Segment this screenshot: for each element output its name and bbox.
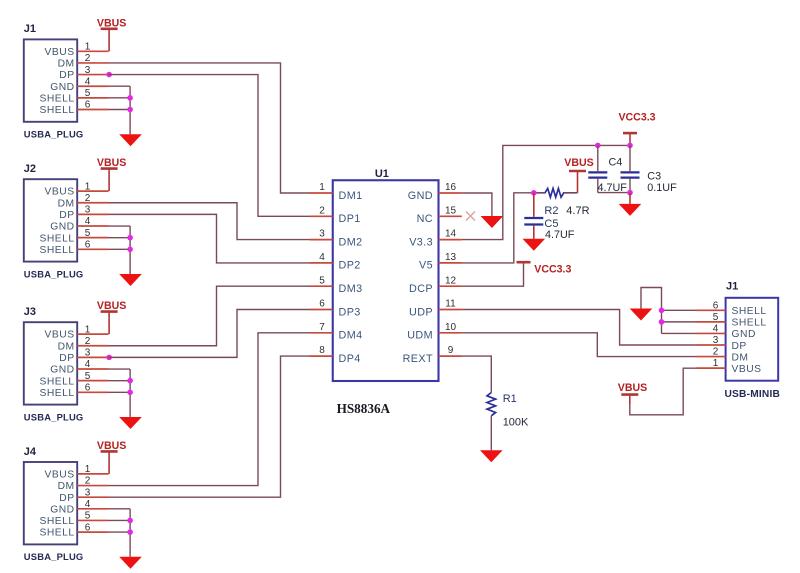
ground at J1 USB-MINIB (630, 309, 653, 321)
junction J3 DP (106, 355, 112, 361)
junction top rail at C3 (627, 143, 633, 149)
svg-text:DM3: DM3 (339, 283, 363, 295)
svg-text:9: 9 (448, 345, 454, 356)
svg-text:100K: 100K (503, 417, 529, 429)
svg-text:DCP: DCP (409, 283, 433, 295)
ground at U1 pin16 (481, 216, 504, 228)
svg-text:DM: DM (732, 352, 749, 363)
U1 left pin numbers (319, 182, 325, 356)
svg-text:10: 10 (445, 322, 457, 333)
ground below C3 (619, 204, 642, 216)
wire U1 UDP pin11 to J1 DP (462, 310, 696, 346)
svg-text:2: 2 (319, 205, 325, 216)
connector J3 USBA_PLUG box (24, 322, 77, 404)
junction J2 SHELL pin6 (127, 247, 133, 253)
connector J2 pin leads (77, 191, 108, 249)
svg-text:C5: C5 (544, 218, 558, 230)
svg-text:VCC3.3: VCC3.3 (534, 263, 571, 275)
power symbol VBUS at R2 (564, 157, 593, 193)
svg-text:11: 11 (445, 299, 456, 310)
svg-text:DM: DM (58, 341, 75, 352)
svg-text:VBUS: VBUS (564, 157, 593, 169)
ground below C5 (523, 239, 546, 251)
ground below J1 (119, 134, 142, 146)
svg-text:U1: U1 (375, 168, 389, 180)
svg-text:USBA_PLUG: USBA_PLUG (24, 129, 84, 140)
wire U1 REXT pin9 to R1 (462, 356, 492, 392)
svg-text:R2: R2 (544, 205, 558, 217)
junction J4 SHELL pin6 (127, 529, 133, 535)
ground below J2 (119, 274, 142, 286)
svg-text:7: 7 (319, 322, 325, 333)
svg-text:VCC3.3: VCC3.3 (618, 112, 655, 124)
svg-text:6: 6 (319, 299, 325, 310)
power symbol VBUS at J2 (97, 157, 126, 191)
junction J3 SHELL pin6 (127, 390, 133, 396)
wire J1 DP to U1 DP1 (109, 75, 311, 217)
wire J1 VBUS pin1 to VBUS symbol (630, 368, 696, 415)
svg-text:NC: NC (417, 213, 433, 225)
svg-text:SHELL: SHELL (39, 93, 74, 104)
no-connect X on U1 pin15 NC (466, 212, 475, 221)
connector J3 pin numbers 1-6 (85, 324, 91, 393)
svg-text:GND: GND (408, 190, 433, 202)
wire J4 GND-SHELL tie (109, 509, 131, 557)
svg-text:REXT: REXT (403, 353, 433, 365)
svg-text:DM1: DM1 (339, 190, 363, 202)
power symbol VBUS at J1 USB-MINIB (618, 382, 647, 404)
svg-text:DP: DP (59, 353, 74, 364)
svg-text:J2: J2 (24, 163, 36, 175)
svg-text:VBUS: VBUS (45, 330, 75, 341)
connector J1 (right) pin leads (696, 310, 726, 368)
connector J4 pin numbers 1-6 (85, 464, 91, 533)
svg-text:GND: GND (50, 504, 74, 515)
svg-text:16: 16 (445, 182, 457, 193)
wire J3 DM to U1 DM3 (109, 286, 311, 346)
connector J4 pin names (39, 470, 74, 539)
wire U1 GND pin16 to ground (462, 193, 492, 216)
junction top rail at C4 (595, 143, 601, 149)
svg-text:DM: DM (58, 59, 75, 70)
svg-text:DP: DP (732, 341, 747, 352)
connector J4 pin leads (77, 474, 108, 532)
wire J2 DM to U1 DM2 (109, 203, 311, 240)
svg-text:VBUS: VBUS (45, 470, 75, 481)
resistor R2 (534, 188, 590, 217)
svg-text:C4: C4 (609, 156, 623, 168)
svg-text:DP4: DP4 (339, 353, 361, 365)
svg-text:GND: GND (50, 222, 74, 233)
junction J2 SHELL pin5 (127, 235, 133, 241)
svg-text:1: 1 (319, 182, 325, 193)
svg-text:USBA_PLUG: USBA_PLUG (24, 268, 84, 279)
svg-text:GND: GND (50, 365, 74, 376)
svg-text:DP2: DP2 (339, 260, 361, 272)
power symbol VBUS at J3 (97, 300, 126, 334)
svg-text:DP1: DP1 (339, 213, 361, 225)
connector J1 pin leads (77, 51, 108, 109)
connector J1 USB-MINIB box (726, 298, 779, 381)
svg-text:8: 8 (319, 345, 325, 356)
svg-text:VBUS: VBUS (45, 187, 75, 198)
svg-text:VBUS: VBUS (732, 364, 762, 375)
svg-text:DM4: DM4 (339, 330, 363, 342)
svg-text:J3: J3 (24, 306, 36, 318)
power symbol VBUS at J1 (97, 17, 126, 51)
junction below C3 (627, 190, 633, 196)
U1 right pin names (403, 190, 433, 365)
svg-text:SHELL: SHELL (39, 105, 74, 116)
capacitor C3 (621, 145, 678, 193)
svg-text:C3: C3 (647, 170, 661, 182)
connector J1 (right) pin names (732, 306, 767, 375)
svg-text:J1: J1 (726, 281, 738, 293)
svg-text:SHELL: SHELL (39, 516, 74, 527)
svg-text:USBA_PLUG: USBA_PLUG (24, 551, 84, 562)
svg-text:0.1UF: 0.1UF (647, 182, 677, 194)
wire J3 GND-SHELL tie (109, 369, 131, 417)
svg-text:VBUS: VBUS (618, 382, 647, 394)
svg-text:SHELL: SHELL (732, 306, 767, 317)
svg-text:SHELL: SHELL (39, 388, 74, 399)
svg-text:4: 4 (319, 252, 325, 263)
junction J1 DP (106, 72, 112, 78)
svg-text:SHELL: SHELL (39, 245, 74, 256)
junction J1 SHELL pin5 (659, 319, 665, 325)
svg-text:V5: V5 (419, 260, 433, 272)
svg-text:DP: DP (59, 493, 74, 504)
connector J1 pin names (39, 47, 74, 116)
connector J1 (right) pin numbers 6-1 (713, 300, 719, 369)
wire J2 GND-SHELL tie (109, 226, 131, 274)
connector J1 pin numbers 1-6 (85, 42, 91, 111)
svg-text:4.7R: 4.7R (566, 205, 589, 217)
svg-text:GND: GND (732, 329, 756, 340)
junction J1 SHELL pin5 (127, 95, 133, 101)
svg-text:DM: DM (58, 481, 75, 492)
junction J1 SHELL pin6 (659, 308, 665, 314)
wire C3 junction to ground (629, 193, 631, 204)
svg-text:15: 15 (445, 205, 457, 216)
connector J4 USBA_PLUG box (24, 462, 77, 544)
wire J1 DM to U1 DM1 (109, 63, 311, 193)
connector J2 pin names (39, 187, 74, 256)
svg-text:DP3: DP3 (339, 306, 361, 318)
junction J1 SHELL pin6 (127, 107, 133, 113)
svg-text:VBUS: VBUS (45, 47, 75, 58)
connector J3 pin names (39, 330, 74, 399)
wire J3 DP to U1 DP3 (109, 310, 311, 358)
op IC U1 HS8836A box (333, 180, 439, 381)
svg-text:J1: J1 (24, 23, 36, 35)
svg-text:HS8836A: HS8836A (337, 401, 391, 416)
svg-text:USB-MINIB: USB-MINIB (725, 389, 781, 400)
svg-text:4.7UF: 4.7UF (598, 182, 628, 194)
wire U1 UDM pin10 to J1 DM (462, 333, 696, 357)
power symbol VCC3.3 at DCP (517, 262, 572, 275)
junction J3 SHELL pin5 (127, 378, 133, 384)
power symbol VBUS at J4 (97, 440, 126, 474)
svg-text:GND: GND (50, 82, 74, 93)
svg-text:DP: DP (59, 70, 74, 81)
resistor R1 (487, 393, 529, 429)
wire J1 GND-SHELL tie (109, 86, 131, 134)
ground below J4 (119, 557, 142, 569)
ground below R1 (480, 450, 503, 462)
ground below J3 (119, 417, 142, 429)
connector J1 USBA_PLUG box (24, 39, 77, 121)
svg-text:14: 14 (445, 229, 457, 240)
connector J2 USBA_PLUG box (24, 179, 77, 261)
junction R2-C5-V5 (531, 190, 537, 196)
svg-text:4.7UF: 4.7UF (545, 229, 575, 241)
svg-text:J4: J4 (24, 446, 37, 458)
svg-text:USBA_PLUG: USBA_PLUG (24, 411, 84, 422)
svg-text:3: 3 (319, 229, 325, 240)
wire J1 SHELL/GND tie to ground hook (641, 288, 696, 334)
svg-text:SHELL: SHELL (39, 376, 74, 387)
wire J4 DM to U1 DM4 (109, 333, 311, 486)
svg-text:UDM: UDM (407, 330, 433, 342)
svg-text:DM: DM (58, 198, 75, 209)
capacitor C4 (588, 145, 630, 193)
connector J2 pin numbers 1-6 (85, 181, 91, 250)
U1 left pin leads 1-8 (310, 193, 333, 356)
svg-text:13: 13 (445, 252, 457, 263)
svg-text:V3.3: V3.3 (409, 236, 433, 248)
wire U1 DCP pin12 to VCC3.3 (462, 262, 524, 286)
power symbol VCC3.3 top (618, 112, 655, 146)
svg-text:UDP: UDP (409, 306, 433, 318)
junction J4 SHELL pin5 (127, 518, 133, 524)
U1 right pin numbers (445, 182, 457, 356)
svg-text:DM2: DM2 (339, 236, 363, 248)
svg-text:DP: DP (59, 210, 74, 221)
U1 right pin leads 16-9 (439, 193, 462, 356)
wire U1 V5 pin13 to R2 junction (462, 193, 534, 263)
U1 left pin names (339, 190, 363, 365)
svg-text:12: 12 (445, 275, 457, 286)
wire R1 to ground (490, 416, 492, 451)
svg-text:SHELL: SHELL (732, 318, 767, 329)
capacitor C5 (524, 193, 575, 241)
svg-text:5: 5 (319, 275, 325, 286)
wire U1 V3.3 pin14 to VCC3.3 rail (462, 145, 630, 239)
wire J2 DP to U1 DP2 (109, 214, 311, 263)
connector J3 pin leads (77, 334, 108, 392)
svg-text:SHELL: SHELL (39, 528, 74, 539)
wire J4 DP to U1 DP4 (109, 356, 311, 497)
svg-text:SHELL: SHELL (39, 233, 74, 244)
svg-text:R1: R1 (503, 393, 517, 405)
